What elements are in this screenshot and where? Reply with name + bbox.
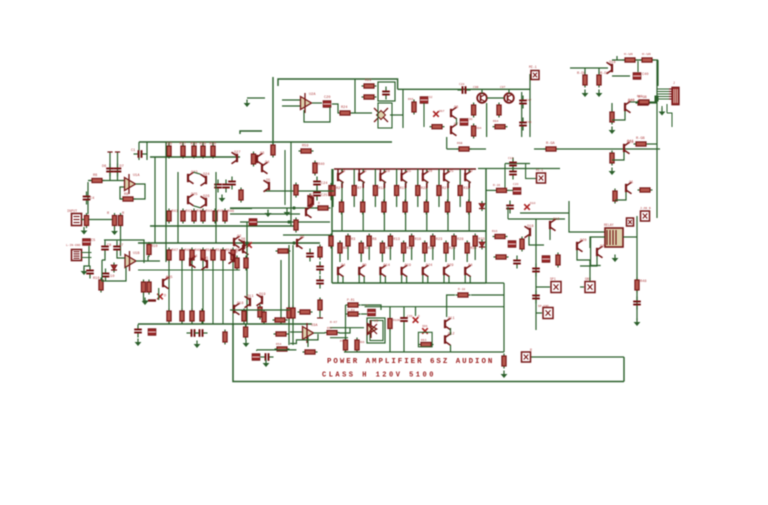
svg-text:D: D (164, 295, 166, 299)
svg-text:SP1: SP1 (550, 277, 556, 281)
svg-text:R-18: R-18 (458, 288, 465, 291)
svg-text:Q18: Q18 (237, 302, 243, 306)
svg-text:Q9: Q9 (300, 236, 304, 240)
svg-text:R8: R8 (124, 193, 128, 197)
svg-text:R67: R67 (439, 110, 445, 113)
svg-text:R42: R42 (186, 210, 192, 214)
svg-text:R41: R41 (172, 210, 178, 214)
svg-text:Q27: Q27 (234, 151, 240, 155)
svg-text:D7: D7 (120, 165, 124, 169)
svg-text:C18: C18 (508, 157, 514, 160)
svg-text:P4: P4 (340, 340, 344, 343)
svg-text:R: R (530, 348, 532, 352)
svg-text:R2: R2 (336, 187, 340, 191)
svg-text:R: R (107, 212, 110, 216)
svg-text:Q25: Q25 (191, 193, 197, 197)
svg-text:C39: C39 (407, 315, 413, 318)
svg-text:U2A: U2A (309, 93, 316, 97)
svg-text:R66: R66 (359, 341, 365, 344)
svg-text:R-GN: R-GN (642, 53, 651, 57)
svg-text:R37: R37 (180, 143, 186, 147)
svg-text:R13: R13 (393, 238, 399, 242)
svg-text:C4: C4 (90, 197, 94, 201)
svg-text:R48: R48 (640, 280, 646, 284)
svg-text:P-R4: P-R4 (347, 309, 355, 313)
svg-text:C9T: C9T (500, 86, 506, 89)
svg-text:L-IN-GND: L-IN-GND (66, 244, 81, 247)
svg-text:Q20: Q20 (580, 239, 586, 243)
svg-text:R44: R44 (206, 210, 212, 214)
svg-text:J-AN B: J-AN B (640, 207, 651, 210)
svg-text:Q24: Q24 (426, 264, 432, 268)
svg-text:Q12: Q12 (448, 333, 454, 337)
svg-text:C1: C1 (131, 149, 135, 153)
svg-text:R28: R28 (457, 238, 463, 242)
svg-text:C5: C5 (91, 239, 95, 243)
svg-text:Q19: Q19 (553, 218, 559, 222)
svg-text:R22: R22 (365, 79, 371, 83)
svg-text:Q11: Q11 (247, 295, 253, 299)
svg-text:R6: R6 (93, 174, 97, 178)
svg-text:C47: C47 (526, 99, 532, 102)
svg-text:R3: R3 (351, 238, 355, 242)
svg-text:R66: R66 (408, 98, 414, 101)
svg-text:Q11: Q11 (448, 317, 454, 321)
svg-text:R-DL: R-DL (577, 72, 586, 76)
svg-text:R38: R38 (191, 143, 197, 147)
svg-text:Q4: Q4 (341, 264, 345, 268)
svg-text:Q9: Q9 (362, 264, 366, 268)
svg-text:C4B: C4B (526, 121, 532, 124)
svg-text:R49: R49 (195, 249, 201, 253)
svg-text:Q18: Q18 (609, 61, 615, 65)
svg-text:U3A: U3A (311, 324, 318, 328)
svg-text:R94: R94 (476, 127, 482, 130)
svg-text:C40: C40 (642, 73, 648, 77)
svg-text:MI-1: MI-1 (529, 65, 537, 69)
svg-text:C24: C24 (321, 182, 327, 186)
svg-text:C20: C20 (513, 183, 519, 186)
svg-text:U5: U5 (374, 320, 378, 324)
svg-text:R6B: R6B (457, 142, 463, 145)
svg-text:CLASS H 120V 5100: CLASS H 120V 5100 (322, 372, 436, 380)
svg-text:R40: R40 (318, 163, 324, 167)
svg-text:R63: R63 (421, 339, 427, 342)
svg-text:C8: C8 (107, 244, 111, 248)
svg-text:R8: R8 (372, 238, 376, 242)
svg-text:R24: R24 (341, 106, 347, 110)
svg-text:Q4: Q4 (193, 255, 197, 259)
svg-text:Q3: Q3 (260, 152, 264, 156)
svg-text:C28: C28 (459, 83, 465, 86)
svg-text:C10: C10 (108, 275, 114, 279)
svg-text:J: J (673, 81, 675, 85)
svg-text:R59: R59 (302, 145, 308, 149)
svg-text:Q18: Q18 (527, 225, 533, 229)
svg-text:C9B: C9B (473, 86, 479, 89)
svg-text:C30: C30 (467, 118, 473, 121)
svg-text:POWER AMPLIFIER 6SZ AUDION: POWER AMPLIFIER 6SZ AUDION (327, 358, 494, 366)
svg-text:Q14: Q14 (383, 264, 389, 268)
svg-text:SP-GND: SP-GND (538, 305, 549, 308)
svg-text:Q8: Q8 (241, 238, 245, 242)
svg-text:C32: C32 (427, 96, 433, 99)
svg-text:INPUT: INPUT (67, 210, 77, 214)
svg-text:R54: R54 (276, 343, 282, 346)
svg-text:P-R1: P-R1 (347, 298, 355, 302)
svg-text:Q26: Q26 (203, 195, 209, 199)
svg-text:R47: R47 (172, 249, 178, 253)
svg-text:R18: R18 (415, 238, 421, 242)
svg-text:R57: R57 (327, 327, 333, 330)
svg-text:R6B: R6B (637, 95, 643, 98)
svg-text:Q7: Q7 (310, 194, 314, 198)
svg-text:Q1: Q1 (629, 181, 633, 185)
svg-text:Q4: Q4 (468, 264, 472, 268)
svg-text:D6: D6 (102, 165, 106, 169)
svg-text:C7: C7 (119, 244, 123, 248)
svg-text:R: R (122, 212, 125, 216)
svg-text:Q5: Q5 (204, 257, 208, 261)
svg-text:D: D (418, 315, 420, 318)
svg-text:Q41: Q41 (627, 140, 633, 144)
svg-text:R7: R7 (357, 187, 361, 191)
svg-text:R106: R106 (393, 319, 400, 322)
svg-text:R-DL: R-DL (600, 72, 609, 76)
svg-text:R-GA: R-GA (546, 142, 555, 146)
svg-text:Q5: Q5 (266, 179, 270, 183)
svg-text:Q29: Q29 (447, 264, 453, 268)
svg-text:R4: R4 (343, 247, 347, 251)
svg-text:R39: R39 (200, 143, 206, 147)
svg-text:Q19: Q19 (405, 264, 411, 268)
svg-text:R-GN: R-GN (624, 53, 633, 57)
svg-text:Q4: Q4 (265, 161, 269, 165)
svg-text:R: R (318, 202, 320, 205)
svg-text:R-16: R-16 (493, 184, 500, 187)
svg-text:C25: C25 (321, 194, 327, 198)
svg-text:D10: D10 (530, 202, 536, 205)
svg-text:Q6: Q6 (454, 106, 458, 110)
svg-text:R64: R64 (493, 120, 499, 123)
svg-text:MI-1: MI-1 (536, 169, 543, 172)
svg-text:U1B: U1B (133, 252, 140, 256)
svg-text:R23: R23 (436, 238, 442, 242)
svg-text:RELAY: RELAY (604, 223, 614, 227)
svg-text:Q6: Q6 (166, 277, 170, 281)
svg-text:Q10: Q10 (231, 251, 237, 255)
svg-text:R9: R9 (364, 247, 368, 251)
svg-text:R-K7: R-K7 (330, 321, 337, 324)
svg-text:U1A: U1A (133, 174, 140, 178)
svg-text:R10: R10 (151, 245, 157, 249)
svg-text:R16: R16 (492, 230, 498, 233)
svg-text:C20: C20 (324, 96, 330, 100)
svg-text:R-GB: R-GB (636, 137, 645, 141)
svg-text:R40: R40 (210, 143, 216, 147)
svg-text:3D6: 3D6 (422, 325, 428, 328)
svg-text:Q24: Q24 (203, 173, 209, 177)
svg-text:Q19: Q19 (259, 293, 265, 297)
